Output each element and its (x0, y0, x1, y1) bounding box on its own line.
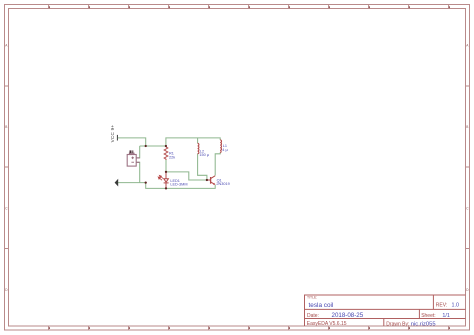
junction dot R1 top (165, 145, 167, 147)
wire anode junction to base (166, 172, 207, 180)
svg-text:Drawn By:: Drawn By: (386, 322, 409, 328)
power flag VCC bar (116, 135, 118, 141)
ground flag arrow (115, 179, 119, 187)
wire L2 top stub (197, 138, 199, 143)
transistor Q1 collector (211, 176, 216, 179)
title block box (305, 295, 466, 326)
wire emitter to ground rail (146, 183, 216, 189)
frame column ticks top (49, 5, 449, 9)
wire L2 bottom to base junction (198, 154, 207, 180)
wire VCC horizontal to drop (118, 138, 146, 146)
svg-text:22k: 22k (169, 156, 175, 160)
svg-text:1/1: 1/1 (442, 313, 450, 319)
wire top rail to R1 (140, 145, 166, 147)
svg-text:Sheet:: Sheet: (421, 313, 435, 319)
svg-text:nic.riz055: nic.riz055 (411, 321, 436, 327)
svg-text:2018-08-25: 2018-08-25 (332, 312, 364, 319)
svg-text:R1: R1 (169, 151, 174, 155)
inductor L1 coil (220, 140, 221, 153)
inductor L2 coil (198, 143, 199, 153)
transistor Q1 base bar (210, 177, 212, 184)
wire battery minus link (136, 162, 139, 182)
battery B1 polarity marks (131, 157, 134, 163)
svg-text:EasyEDA V5.6.15: EasyEDA V5.6.15 (307, 321, 347, 327)
svg-text:2N3019: 2N3019 (216, 182, 229, 186)
wire L1 bottom to collector (215, 152, 220, 175)
svg-text:4 µ: 4 µ (222, 148, 228, 152)
LED1 triangle (164, 179, 169, 183)
LED1 anode lead (165, 172, 167, 179)
transistor Q1 base lead (207, 179, 211, 181)
svg-text:tesla coil: tesla coil (309, 302, 334, 309)
frame row letters (5, 43, 469, 291)
wire battery plus link (136, 146, 139, 158)
junction dot ground (145, 181, 147, 183)
svg-text:1.0: 1.0 (452, 302, 460, 308)
svg-text:LED-3MM: LED-3MM (170, 183, 187, 187)
wire ground flag to battery minus junction (118, 182, 146, 184)
svg-text:B: B (5, 125, 7, 129)
junction dot Q1 base (206, 179, 208, 181)
svg-text:VCC 9+: VCC 9+ (110, 125, 115, 143)
junction dot LED cathode (165, 187, 167, 189)
frame column numbers top (49, 6, 450, 8)
LED1 cathode bar (164, 182, 169, 184)
resistor R1 zigzag (164, 147, 168, 160)
wire R1 bottom to LED anode (165, 160, 167, 172)
battery B1 refdes (130, 150, 134, 153)
svg-text:B: B (466, 125, 468, 129)
junction dot LED anode (165, 171, 167, 173)
junction dot VCC rail (145, 145, 147, 147)
wire R1 top to inductor rail (166, 138, 220, 146)
LED1 emission arrows (158, 175, 163, 180)
frame column ticks bottom (49, 326, 449, 330)
svg-text:150 µ: 150 µ (199, 153, 209, 157)
LED1 cathode lead (165, 183, 167, 188)
frame row ticks left and right (5, 86, 470, 249)
svg-text:TITLE:: TITLE: (307, 295, 317, 299)
frame column numbers bottom (49, 327, 450, 329)
transistor Q1 emitter with arrow (211, 182, 215, 184)
svg-text:REV:: REV: (436, 302, 447, 308)
svg-text:Date:: Date: (307, 313, 319, 319)
battery B1 body (127, 153, 140, 166)
